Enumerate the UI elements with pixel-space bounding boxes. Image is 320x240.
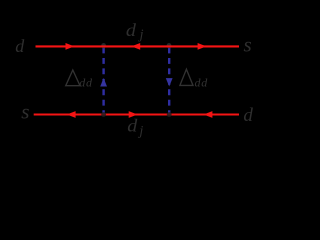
capital Delta right [180, 69, 193, 85]
svg-text:dd: dd [195, 76, 209, 90]
arrow top-right right-pointing [198, 43, 207, 50]
wire bottom line s to d [34, 113, 239, 115]
arrow left-dash up-pointing [100, 78, 107, 87]
arrow right-dash down-pointing [166, 78, 173, 86]
arrow top-left right-pointing [66, 43, 75, 50]
vertex dot bottom-right [167, 112, 172, 117]
arrow bottom-right left-pointing [204, 111, 213, 118]
vertex dot bottom-left [101, 112, 106, 117]
svg-text:dd: dd [79, 75, 93, 89]
svg-text:d: d [127, 116, 138, 135]
svg-text:d: d [15, 36, 25, 56]
arrow bottom-middle right-pointing [129, 111, 138, 118]
svg-text:j: j [137, 124, 143, 139]
svg-text:s: s [244, 33, 252, 57]
svg-text:j: j [138, 28, 144, 43]
wire top line d to s [36, 45, 240, 47]
svg-text:s: s [21, 100, 29, 124]
dashed squark line right [168, 48, 170, 115]
vertex dot top-right [167, 43, 172, 48]
capital Delta left [66, 70, 80, 86]
arrow top-middle left-pointing [131, 43, 140, 50]
svg-text:d: d [243, 105, 253, 126]
arrow bottom-left left-pointing [67, 111, 76, 118]
svg-text:d: d [126, 21, 137, 40]
vertex dot top-left [101, 43, 106, 48]
dashed squark line left [102, 48, 104, 115]
